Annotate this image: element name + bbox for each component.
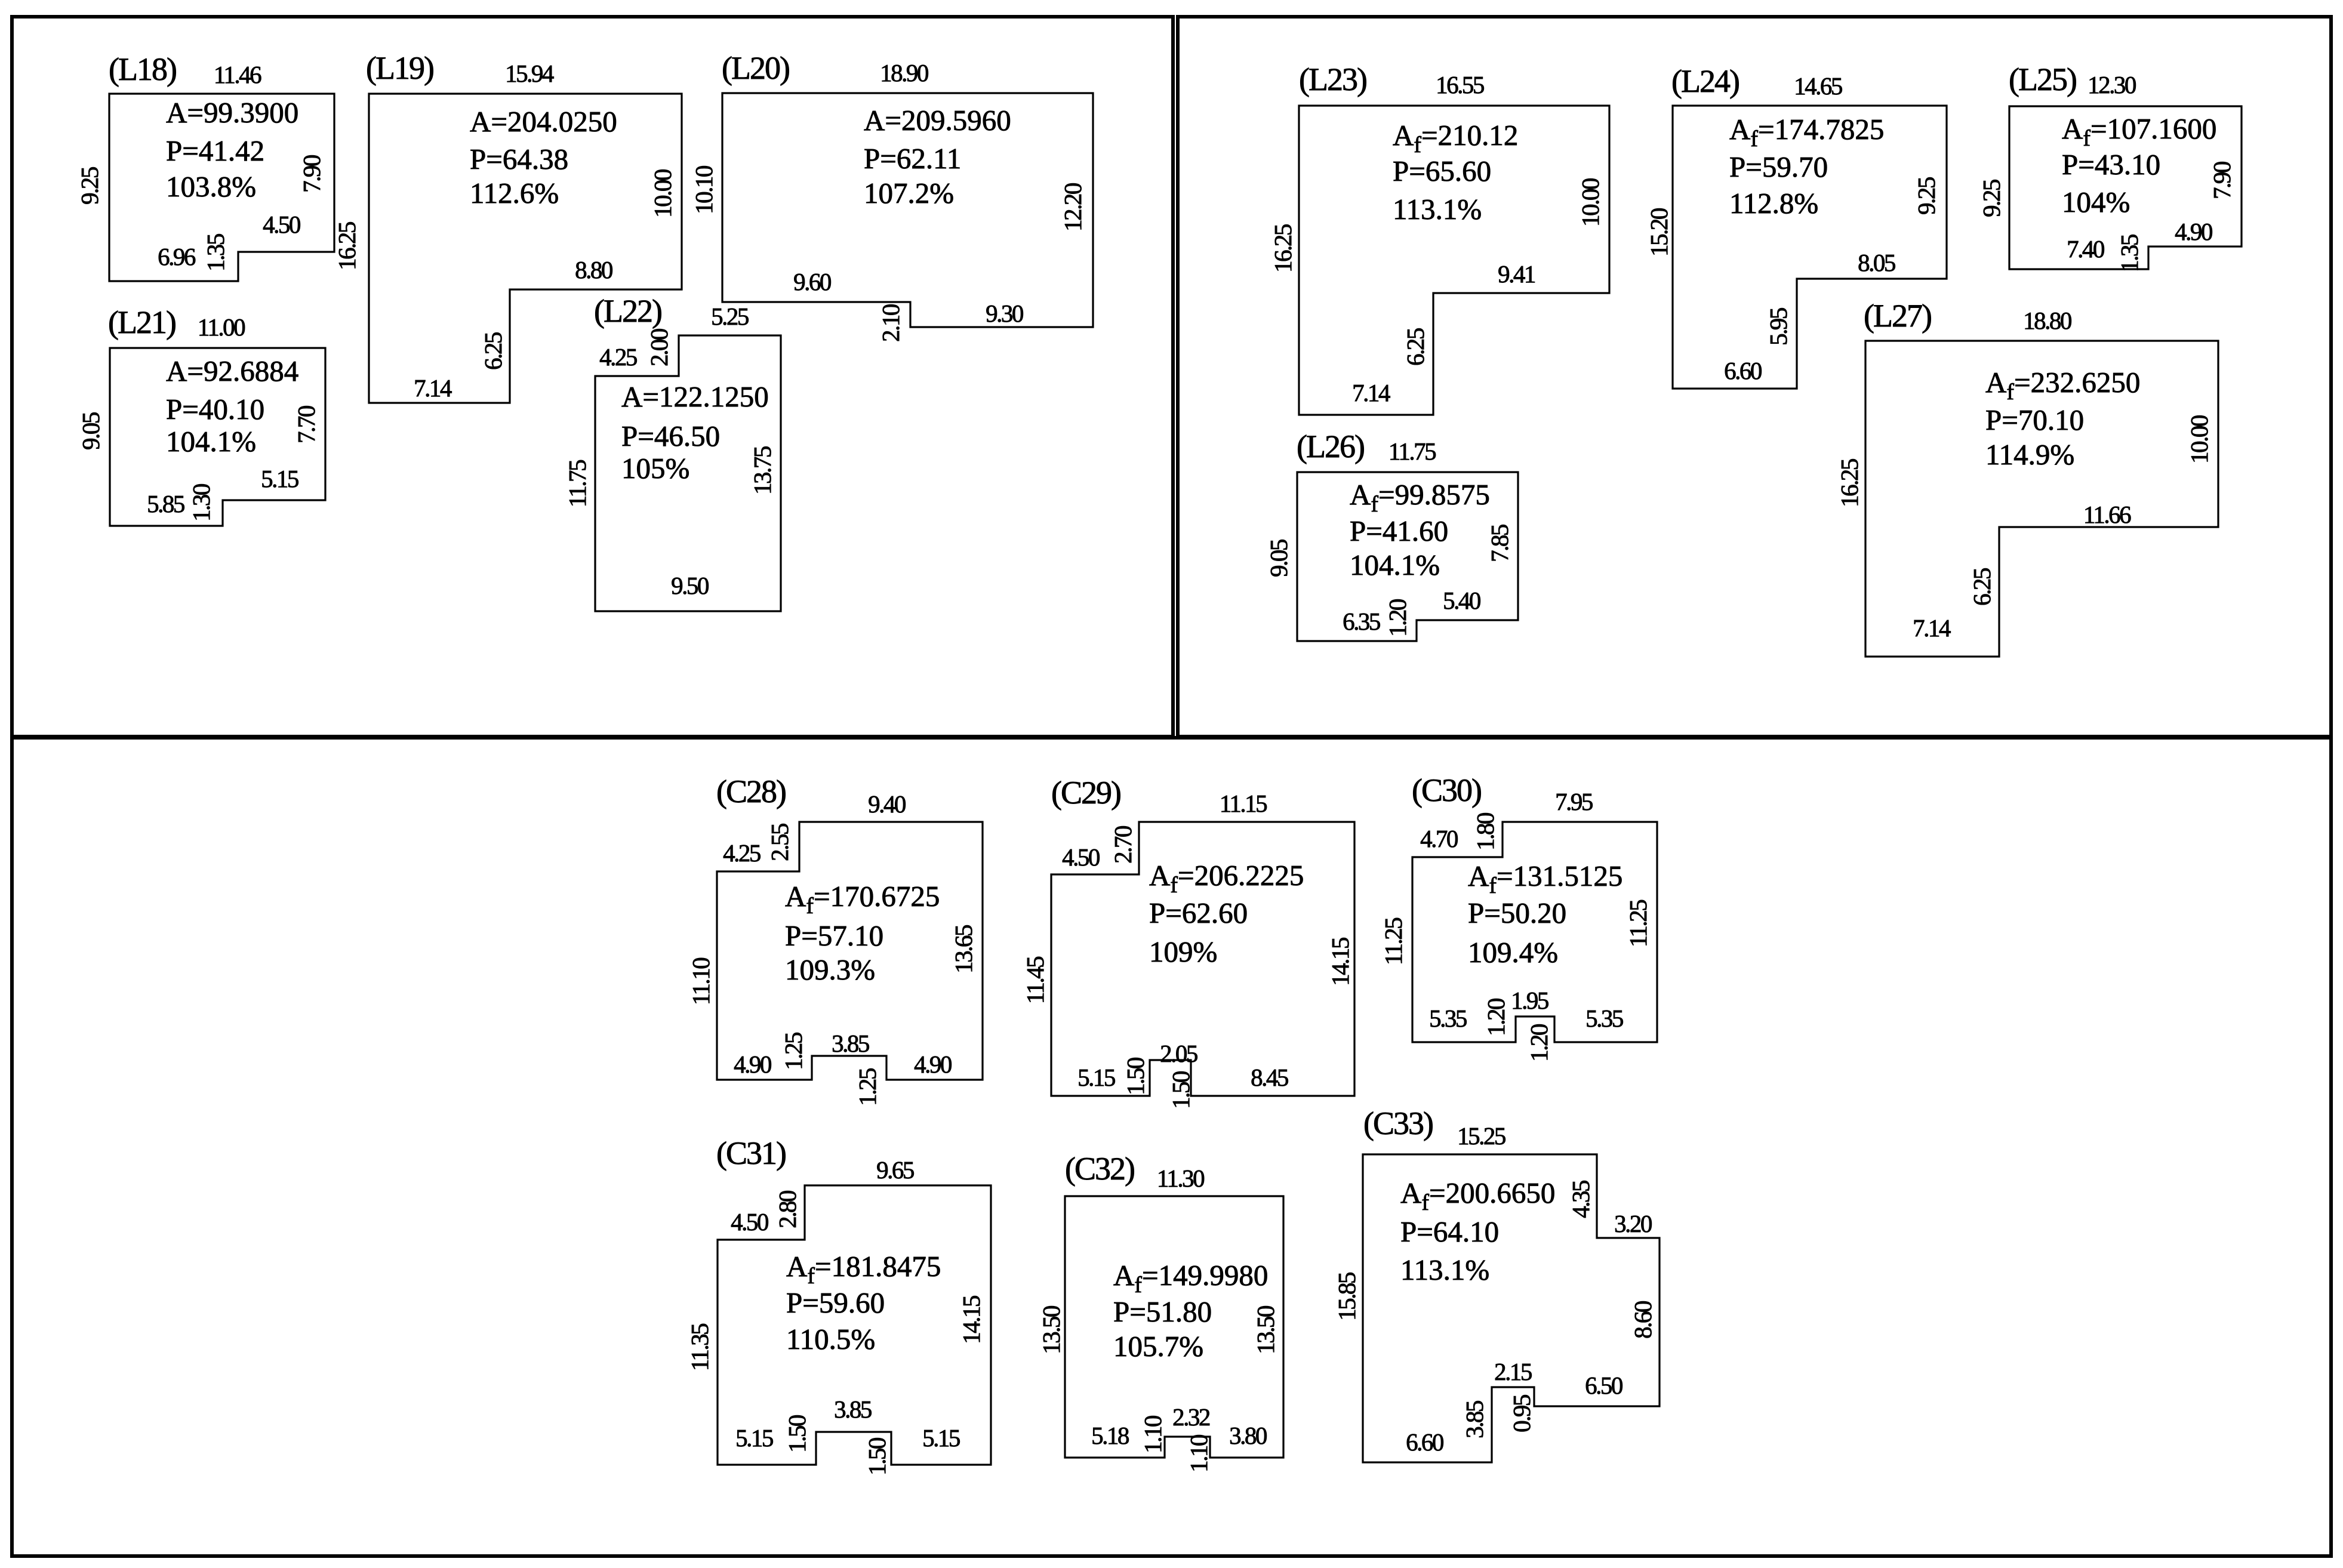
svg-text:7.90: 7.90: [2208, 162, 2236, 199]
svg-text:7.14: 7.14: [1352, 379, 1390, 406]
svg-text:A=122.1250: A=122.1250: [621, 380, 769, 413]
svg-text:(L21): (L21): [108, 304, 176, 340]
svg-text:9.30: 9.30: [986, 300, 1023, 327]
svg-text:5.85: 5.85: [147, 490, 184, 517]
svg-text:9.25: 9.25: [1978, 180, 2005, 217]
svg-text:7.70: 7.70: [293, 406, 320, 443]
svg-text:(L18): (L18): [109, 51, 176, 87]
svg-text:9.25: 9.25: [1913, 177, 1940, 215]
svg-text:104%: 104%: [2062, 186, 2130, 218]
svg-text:112.8%: 112.8%: [1729, 187, 1818, 220]
svg-text:6.25: 6.25: [1402, 328, 1429, 366]
svg-text:6.25: 6.25: [1968, 568, 1996, 606]
svg-text:(L23): (L23): [1299, 61, 1366, 97]
svg-text:3.85: 3.85: [834, 1396, 872, 1423]
svg-text:1.20: 1.20: [1482, 999, 1510, 1036]
svg-text:109.4%: 109.4%: [1468, 936, 1558, 969]
svg-text:1.10: 1.10: [1185, 1435, 1212, 1472]
svg-text:(L19): (L19): [366, 50, 433, 86]
svg-text:5.18: 5.18: [1091, 1422, 1129, 1449]
svg-text:A=99.3900: A=99.3900: [166, 96, 298, 129]
svg-text:(L27): (L27): [1864, 298, 1931, 334]
svg-text:11.25: 11.25: [1624, 900, 1652, 947]
svg-text:A=209.5960: A=209.5960: [864, 104, 1011, 137]
svg-text:1.20: 1.20: [1525, 1024, 1553, 1062]
svg-text:11.10: 11.10: [687, 958, 715, 1005]
svg-text:2.70: 2.70: [1109, 826, 1137, 864]
svg-text:(L26): (L26): [1297, 429, 1364, 464]
svg-text:1.10: 1.10: [1139, 1416, 1166, 1453]
svg-text:3.80: 3.80: [1229, 1422, 1267, 1449]
svg-text:11.75: 11.75: [564, 460, 591, 507]
svg-text:14.15: 14.15: [957, 1296, 985, 1344]
svg-text:5.95: 5.95: [1765, 308, 1792, 346]
svg-text:14.65: 14.65: [1794, 72, 1842, 100]
svg-text:5.25: 5.25: [711, 303, 749, 330]
svg-text:2.32: 2.32: [1172, 1403, 1210, 1431]
svg-text:(L20): (L20): [722, 50, 789, 86]
svg-text:1.35: 1.35: [202, 234, 229, 272]
svg-text:1.25: 1.25: [780, 1033, 807, 1070]
svg-text:105.7%: 105.7%: [1113, 1330, 1203, 1363]
svg-text:109%: 109%: [1149, 935, 1217, 968]
svg-text:10.00: 10.00: [649, 170, 676, 218]
svg-text:3.85: 3.85: [1461, 1401, 1488, 1438]
svg-text:3.20: 3.20: [1614, 1210, 1652, 1237]
svg-text:(C32): (C32): [1065, 1151, 1134, 1187]
svg-text:7.90: 7.90: [298, 155, 325, 193]
svg-text:(L24): (L24): [1671, 63, 1739, 99]
svg-text:11.15: 11.15: [1220, 790, 1267, 817]
svg-text:6.25: 6.25: [479, 332, 507, 370]
svg-text:P=62.60: P=62.60: [1149, 897, 1248, 929]
svg-text:5.15: 5.15: [261, 465, 298, 492]
svg-text:13.65: 13.65: [950, 925, 977, 974]
svg-text:113.1%: 113.1%: [1400, 1253, 1489, 1286]
svg-text:16.25: 16.25: [1836, 459, 1863, 507]
svg-text:2.80: 2.80: [774, 1191, 801, 1228]
svg-text:9.65: 9.65: [876, 1156, 914, 1184]
svg-text:P=62.11: P=62.11: [864, 142, 961, 175]
svg-text:7.85: 7.85: [1486, 525, 1513, 562]
svg-text:15.85: 15.85: [1333, 1273, 1360, 1321]
svg-text:(C29): (C29): [1051, 775, 1120, 811]
svg-text:1.50: 1.50: [783, 1415, 811, 1453]
svg-text:1.50: 1.50: [1122, 1058, 1149, 1095]
svg-text:(C28): (C28): [716, 774, 786, 809]
svg-text:5.35: 5.35: [1585, 1005, 1623, 1032]
svg-text:6.60: 6.60: [1406, 1428, 1443, 1456]
svg-text:9.05: 9.05: [77, 412, 104, 450]
svg-text:105%: 105%: [621, 452, 689, 485]
svg-text:P=70.10: P=70.10: [1985, 403, 2084, 436]
svg-text:1.25: 1.25: [854, 1068, 881, 1106]
svg-text:P=51.80: P=51.80: [1113, 1295, 1212, 1328]
svg-text:P=64.10: P=64.10: [1400, 1215, 1499, 1248]
svg-text:16.25: 16.25: [333, 222, 361, 270]
svg-text:11.75: 11.75: [1388, 438, 1436, 465]
svg-text:9.41: 9.41: [1498, 260, 1535, 288]
svg-text:10.00: 10.00: [1577, 178, 1604, 227]
svg-text:4.50: 4.50: [263, 211, 300, 238]
svg-text:1.95: 1.95: [1511, 987, 1548, 1014]
svg-text:103.8%: 103.8%: [166, 170, 256, 203]
svg-text:9.50: 9.50: [671, 572, 709, 599]
svg-text:0.95: 0.95: [1508, 1395, 1535, 1433]
svg-text:4.25: 4.25: [599, 343, 637, 371]
svg-text:5.15: 5.15: [922, 1424, 960, 1452]
svg-text:5.35: 5.35: [1429, 1005, 1467, 1032]
svg-text:A=204.0250: A=204.0250: [470, 105, 617, 138]
svg-text:11.00: 11.00: [198, 313, 245, 341]
svg-text:112.6%: 112.6%: [470, 177, 559, 210]
svg-text:10.00: 10.00: [2185, 415, 2213, 464]
svg-text:P=41.42: P=41.42: [166, 134, 264, 167]
svg-text:7.14: 7.14: [1913, 614, 1951, 642]
svg-text:1.50: 1.50: [863, 1438, 891, 1475]
svg-text:12.30: 12.30: [2088, 71, 2136, 98]
svg-text:104.1%: 104.1%: [166, 425, 256, 458]
svg-text:5.15: 5.15: [735, 1424, 773, 1452]
svg-text:9.25: 9.25: [76, 167, 103, 205]
svg-text:4.90: 4.90: [914, 1051, 952, 1078]
svg-text:2.00: 2.00: [645, 329, 673, 366]
svg-text:(C33): (C33): [1363, 1105, 1433, 1141]
svg-text:6.96: 6.96: [158, 243, 196, 270]
svg-text:2.05: 2.05: [1160, 1040, 1197, 1067]
svg-text:3.85: 3.85: [832, 1030, 869, 1057]
svg-text:9.40: 9.40: [868, 790, 906, 818]
svg-text:P=57.10: P=57.10: [785, 919, 883, 952]
svg-text:(L25): (L25): [2009, 61, 2076, 97]
svg-text:7.40: 7.40: [2067, 235, 2104, 263]
svg-text:P=65.60: P=65.60: [1393, 155, 1491, 187]
svg-text:P=46.50: P=46.50: [621, 420, 720, 452]
svg-text:11.45: 11.45: [1021, 957, 1049, 1004]
svg-text:10.10: 10.10: [690, 166, 718, 214]
svg-text:1.80: 1.80: [1471, 813, 1499, 851]
svg-text:P=50.20: P=50.20: [1468, 897, 1566, 929]
svg-text:18.90: 18.90: [880, 59, 928, 87]
svg-text:8.60: 8.60: [1629, 1301, 1657, 1339]
svg-text:114.9%: 114.9%: [1985, 438, 2074, 471]
svg-text:P=64.38: P=64.38: [470, 143, 568, 175]
svg-text:11.30: 11.30: [1157, 1165, 1204, 1192]
svg-text:11.35: 11.35: [686, 1324, 713, 1371]
svg-text:9.60: 9.60: [793, 268, 831, 295]
svg-text:13.50: 13.50: [1037, 1306, 1065, 1354]
svg-text:4.50: 4.50: [1062, 843, 1100, 871]
svg-text:107.2%: 107.2%: [864, 177, 954, 210]
svg-text:P=40.10: P=40.10: [166, 393, 264, 426]
svg-text:(L22): (L22): [594, 293, 661, 329]
svg-text:15.94: 15.94: [505, 60, 554, 87]
svg-text:2.15: 2.15: [1494, 1358, 1532, 1385]
svg-text:15.20: 15.20: [1645, 208, 1673, 257]
svg-text:P=59.70: P=59.70: [1729, 150, 1828, 183]
svg-text:7.14: 7.14: [414, 374, 452, 402]
svg-text:8.45: 8.45: [1251, 1064, 1288, 1091]
svg-text:5.40: 5.40: [1443, 587, 1480, 614]
svg-text:1.50: 1.50: [1167, 1071, 1194, 1109]
svg-text:14.15: 14.15: [1326, 938, 1354, 986]
svg-text:18.80: 18.80: [2023, 307, 2071, 334]
svg-text:13.50: 13.50: [1252, 1306, 1279, 1354]
svg-text:16.25: 16.25: [1269, 224, 1297, 273]
svg-text:P=59.60: P=59.60: [786, 1286, 885, 1319]
svg-text:7.95: 7.95: [1555, 788, 1593, 815]
svg-text:(C30): (C30): [1412, 772, 1481, 808]
svg-text:109.3%: 109.3%: [785, 953, 875, 986]
svg-text:15.25: 15.25: [1457, 1122, 1505, 1150]
svg-text:P=43.10: P=43.10: [2062, 148, 2160, 181]
svg-text:P=41.60: P=41.60: [1350, 515, 1448, 547]
svg-text:104.1%: 104.1%: [1350, 549, 1440, 581]
svg-text:6.60: 6.60: [1724, 357, 1762, 384]
svg-text:8.80: 8.80: [575, 256, 612, 284]
svg-text:9.05: 9.05: [1265, 540, 1292, 577]
svg-text:A=92.6884: A=92.6884: [166, 355, 298, 387]
svg-text:4.90: 4.90: [734, 1051, 771, 1078]
svg-text:4.25: 4.25: [723, 839, 761, 867]
svg-text:5.15: 5.15: [1077, 1064, 1115, 1091]
svg-text:4.90: 4.90: [2175, 218, 2212, 245]
svg-text:1.20: 1.20: [1384, 599, 1411, 637]
svg-text:1.35: 1.35: [2116, 235, 2143, 272]
svg-text:13.75: 13.75: [749, 446, 776, 495]
svg-text:4.50: 4.50: [731, 1208, 768, 1236]
svg-text:110.5%: 110.5%: [786, 1323, 875, 1356]
svg-text:8.05: 8.05: [1858, 249, 1895, 276]
svg-text:6.35: 6.35: [1343, 608, 1380, 635]
svg-text:2.10: 2.10: [877, 304, 904, 342]
svg-text:11.25: 11.25: [1380, 918, 1407, 965]
svg-text:11.66: 11.66: [2083, 501, 2131, 528]
svg-text:12.20: 12.20: [1059, 183, 1086, 232]
svg-text:4.70: 4.70: [1420, 825, 1458, 852]
svg-text:16.55: 16.55: [1436, 71, 1484, 98]
svg-text:113.1%: 113.1%: [1393, 193, 1482, 226]
svg-text:6.50: 6.50: [1585, 1372, 1622, 1399]
svg-text:4.35: 4.35: [1567, 1181, 1594, 1218]
svg-text:2.55: 2.55: [766, 824, 793, 861]
svg-text:1.30: 1.30: [187, 484, 215, 522]
svg-text:11.46: 11.46: [214, 61, 261, 88]
svg-text:(C31): (C31): [716, 1135, 786, 1171]
